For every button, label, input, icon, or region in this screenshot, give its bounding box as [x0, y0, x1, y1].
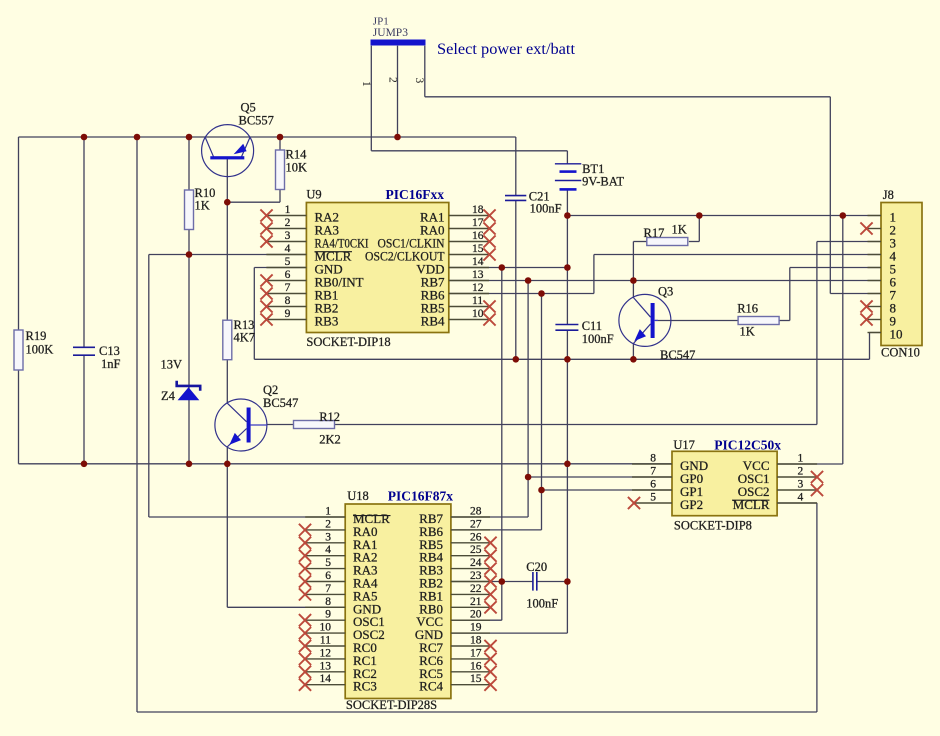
svg-text:PIC12C50x: PIC12C50x	[714, 438, 781, 453]
label R12	[319, 410, 340, 424]
wire VDD top rail	[19, 137, 516, 195]
U18 pin 23 RB2	[419, 570, 496, 591]
wire Q2 emitter to rail	[226, 447, 228, 464]
svg-text:4: 4	[285, 243, 291, 255]
svg-text:1nF: 1nF	[101, 357, 121, 371]
svg-text:R14: R14	[286, 148, 308, 162]
U18 pin 22 RB1	[419, 583, 496, 604]
U9 pin 7 RB1	[260, 282, 338, 303]
U18 pin 24 RB3	[419, 557, 496, 578]
svg-text:10: 10	[890, 327, 903, 342]
battery BT1	[555, 164, 581, 191]
svg-text:3: 3	[798, 479, 804, 491]
svg-text:U18: U18	[347, 489, 369, 503]
svg-text:13V: 13V	[161, 358, 183, 372]
svg-text:19: 19	[470, 622, 482, 634]
U17 pin 4 MCLR	[732, 492, 817, 513]
U9 pin 13 RB7	[421, 269, 489, 290]
svg-text:CON10: CON10	[881, 346, 920, 360]
svg-text:Q5: Q5	[241, 101, 256, 115]
label JP1	[373, 16, 389, 28]
svg-text:4: 4	[798, 492, 804, 504]
JP1 pin number 2	[387, 77, 399, 83]
svg-text:BC557: BC557	[239, 114, 274, 128]
wire C13 branch vertical	[83, 137, 85, 464]
junction dot R10/MCLR	[186, 251, 193, 258]
wire JP1 pin 2 to VDD rail	[397, 46, 399, 137]
wire C20 row RB2	[451, 581, 568, 583]
svg-text:1: 1	[285, 204, 291, 216]
label JUMP3	[373, 27, 408, 39]
svg-text:7: 7	[285, 282, 291, 294]
svg-text:SOCKET-DIP28S: SOCKET-DIP28S	[346, 698, 437, 712]
J8 pin 2	[860, 222, 896, 237]
junction dot GP1 row	[538, 487, 545, 494]
U18 pin 17 RC6	[419, 647, 496, 668]
U9 pin 12 RB6	[421, 282, 489, 303]
svg-text:18: 18	[472, 204, 484, 216]
wire Z4 branch vertical	[188, 255, 190, 464]
junction dots VDD row	[499, 264, 571, 271]
J8 pin 6	[868, 275, 897, 290]
wire long vertical top-to-bottom rail	[136, 137, 138, 712]
svg-text:10: 10	[472, 308, 484, 320]
U17 pin 3 OSC2	[738, 479, 823, 500]
resistor R14	[276, 150, 285, 190]
wire MCLR drop to U18 pin 1	[149, 255, 345, 518]
U18 pin 19 GND	[415, 622, 490, 643]
resistor R16	[738, 317, 779, 325]
U17 pin 1 VCC	[743, 453, 817, 474]
label R14	[286, 148, 308, 162]
U9 pin 8 RB2	[260, 295, 338, 316]
junction dots +V line	[564, 212, 846, 219]
resistor R17	[647, 238, 688, 246]
IC U9 PIC16Fxx socket DIP18 body	[306, 203, 448, 333]
label C13	[99, 344, 120, 358]
wire VDD vertical to U18 pin 20 VCC	[451, 268, 502, 621]
junction dots top rail	[81, 134, 401, 141]
label Z4	[161, 389, 176, 403]
U18 pin 1 MCLR	[305, 506, 390, 527]
svg-text:C13: C13	[99, 344, 120, 358]
svg-text:SOCKET-DIP18: SOCKET-DIP18	[306, 335, 390, 349]
svg-text:Z4: Z4	[161, 389, 176, 403]
svg-text:22: 22	[470, 583, 482, 595]
wire U9 GND pin 5 to ground rail	[254, 268, 306, 360]
svg-text:28: 28	[470, 506, 482, 518]
junction dots RB7 row	[525, 277, 637, 284]
svg-text:100nF: 100nF	[530, 202, 562, 216]
label R10	[195, 186, 216, 200]
svg-text:U9: U9	[306, 188, 321, 202]
svg-text:25: 25	[470, 544, 482, 556]
resistor R13	[223, 320, 232, 360]
U18 pin 28 RB7	[419, 506, 490, 527]
U18 pin 7 RA5	[299, 583, 378, 604]
jumper JP1 bar	[371, 40, 426, 46]
U18 pin 27 RB6	[419, 518, 490, 539]
svg-text:BC547: BC547	[660, 348, 695, 362]
resistor R12	[294, 421, 335, 429]
svg-text:6: 6	[325, 570, 331, 582]
junction dot R14/Q5 collector	[224, 199, 231, 206]
U17 pin 8 GND	[632, 453, 708, 474]
label 1nF	[101, 357, 121, 371]
svg-text:5: 5	[650, 492, 656, 504]
U9 pin 15 OSC2/CLKOUT	[365, 243, 496, 264]
svg-text:RC3: RC3	[353, 679, 377, 694]
JP1 pin number 1	[360, 81, 372, 87]
zener diode Z4	[177, 381, 201, 400]
svg-text:1K: 1K	[672, 223, 687, 237]
U18 pin 4 RA2	[299, 544, 378, 565]
label Q5	[241, 101, 256, 115]
svg-text:1: 1	[360, 81, 372, 87]
wire U9 VDD row	[449, 267, 568, 269]
svg-text:6: 6	[650, 479, 656, 491]
label 10K	[286, 161, 308, 175]
U9 pin 1 RA2	[260, 204, 339, 225]
svg-text:RB3: RB3	[315, 314, 339, 329]
label 100nF C20	[526, 597, 558, 611]
U9 pin 6 RB0/INT	[260, 269, 363, 290]
label U17	[673, 438, 695, 452]
J8 pin 8	[860, 300, 896, 315]
svg-text:MCLR: MCLR	[733, 497, 770, 512]
label 13V	[161, 358, 183, 372]
svg-text:2: 2	[285, 217, 291, 229]
svg-text:2K2: 2K2	[319, 433, 341, 447]
svg-text:11: 11	[320, 635, 331, 647]
U18 pin 3 RA1	[299, 531, 378, 552]
label 1K R16	[740, 325, 755, 339]
U18 pin 13 RC2	[299, 660, 377, 681]
U9 pin 17 RA0	[420, 217, 496, 238]
wire Q5 collector vertical	[226, 159, 228, 404]
svg-text:100nF: 100nF	[582, 332, 614, 346]
label SOCKET-DIP8	[674, 519, 752, 533]
svg-text:R12: R12	[319, 410, 340, 424]
U18 pin 20 VCC	[416, 609, 490, 630]
wire JP1 pin 3 across to J8 pin 7	[425, 46, 881, 294]
label R17	[644, 226, 665, 240]
transistor Q5 BC557	[202, 125, 254, 177]
svg-text:8: 8	[325, 596, 331, 608]
svg-text:PIC16F87x: PIC16F87x	[388, 489, 453, 504]
wire battery/C11 vertical down to U18 pin 19 GND	[451, 216, 568, 634]
label BC547 Q2	[263, 396, 298, 410]
U18 pin 16 RC5	[419, 660, 496, 681]
svg-text:2: 2	[798, 466, 804, 478]
svg-text:7: 7	[650, 466, 656, 478]
J8 pin 5	[868, 262, 897, 277]
svg-text:Select power ext/batt: Select power ext/batt	[437, 41, 576, 58]
U18 pin 11 RC0	[299, 635, 377, 656]
J8 pin 1	[868, 210, 897, 225]
svg-text:R17: R17	[644, 226, 665, 240]
wire RB7 vertical to U17 GP0 and U18 pin 28	[451, 281, 672, 518]
J8 pin 4	[868, 249, 897, 264]
wire battery to +V node	[566, 189, 568, 215]
svg-text:10K: 10K	[286, 161, 308, 175]
svg-text:27: 27	[470, 518, 482, 530]
wire bottom rail	[137, 711, 817, 713]
svg-text:20: 20	[470, 609, 482, 621]
svg-text:1: 1	[798, 453, 804, 465]
wire R10 branch vertical	[188, 137, 190, 255]
IC U17 PIC12C50x socket DIP8 body	[672, 451, 777, 515]
connector J8 CON10 body	[881, 203, 922, 346]
svg-text:17: 17	[472, 217, 484, 229]
svg-text:GP2: GP2	[680, 497, 703, 512]
svg-text:100K: 100K	[26, 343, 54, 357]
label C20	[526, 560, 547, 574]
label PIC12C50x	[714, 438, 781, 453]
label BC557	[239, 114, 274, 128]
U9 pin 5 GND	[266, 256, 342, 277]
svg-text:3: 3	[413, 78, 425, 84]
J8 pin 7	[868, 288, 897, 303]
U17 pin 7 GP0	[632, 466, 703, 487]
label Q2	[263, 383, 278, 397]
label CON10	[881, 346, 920, 360]
svg-text:8: 8	[285, 295, 291, 307]
wire +V down to U17 VCC pin 1	[777, 216, 843, 465]
svg-text:24: 24	[470, 557, 482, 569]
wire Q2 base R12 line to J8 pin 3	[267, 242, 881, 425]
svg-text:R19: R19	[26, 329, 47, 343]
svg-text:BC547: BC547	[263, 396, 298, 410]
svg-text:J8: J8	[883, 188, 894, 202]
wire left branch vertical (R19 leg)	[18, 137, 20, 464]
U9 pin 2 RA3	[260, 217, 339, 238]
U18 pin 15 RC4	[419, 673, 496, 694]
label SOCKET-DIP28S	[346, 698, 437, 712]
label 1K R10	[195, 199, 210, 213]
wire C21 branch vertical	[515, 201, 517, 360]
svg-text:5: 5	[285, 256, 291, 268]
U18 pin 21 RB0	[419, 596, 496, 617]
U9 pin 16 OSC1/CLKIN	[378, 230, 496, 251]
U18 pin 10 OSC2	[299, 622, 385, 643]
J8 pin 10	[868, 327, 903, 342]
svg-text:9V-BAT: 9V-BAT	[582, 175, 624, 189]
U18 pin 14 RC3	[299, 673, 377, 694]
wire R17 right leg to +V	[689, 216, 699, 242]
U9 pin 4 MCLR	[266, 243, 352, 264]
U18 pin 18 RC7	[419, 635, 496, 656]
svg-text:7: 7	[325, 583, 331, 595]
svg-text:18: 18	[470, 635, 482, 647]
svg-text:5: 5	[325, 557, 331, 569]
svg-text:RC4: RC4	[419, 679, 443, 694]
svg-text:10: 10	[320, 622, 332, 634]
U17 pin 2 OSC1	[738, 466, 823, 487]
svg-text:16: 16	[470, 660, 482, 672]
label SOCKET-DIP18	[306, 335, 390, 349]
svg-text:2: 2	[325, 518, 331, 530]
svg-text:14: 14	[472, 256, 484, 268]
capacitor C11	[555, 325, 578, 331]
svg-text:RB4: RB4	[421, 314, 445, 329]
svg-text:Q3: Q3	[658, 285, 673, 299]
junction dots lower rail	[81, 461, 571, 468]
label 100nF C21	[530, 202, 562, 216]
svg-text:R16: R16	[737, 302, 758, 316]
svg-text:8: 8	[650, 453, 656, 465]
U17 pin 5 GP2	[628, 492, 703, 513]
label Q3	[658, 285, 673, 299]
U9 pin 18 RA1	[420, 204, 496, 225]
label BT1	[582, 162, 604, 176]
U18 pin 9 OSC1	[299, 609, 385, 630]
svg-text:17: 17	[470, 647, 482, 659]
junction dots C20 row	[499, 578, 571, 585]
svg-text:1: 1	[325, 506, 331, 518]
svg-text:JP1: JP1	[373, 16, 389, 28]
label R16	[737, 302, 758, 316]
U9 pin 9 RB3	[260, 308, 338, 329]
wire +V line to J8 pin 1	[567, 215, 881, 217]
wire JP1 pin 1 to battery top	[371, 46, 567, 164]
svg-text:14: 14	[320, 673, 332, 685]
capacitor C21	[505, 196, 526, 201]
U9 pin 10 RB4	[421, 308, 496, 329]
transistor Q2 BC547	[215, 399, 267, 451]
svg-text:26: 26	[470, 531, 482, 543]
wire RB6 vertical to U17 GP1 and U18 pin 27	[451, 294, 672, 530]
svg-text:4: 4	[325, 544, 331, 556]
label 4K7	[234, 331, 256, 345]
svg-text:C20: C20	[526, 560, 547, 574]
svg-text:U17: U17	[673, 438, 695, 452]
svg-text:13: 13	[472, 269, 484, 281]
wire ground rail lower	[19, 463, 673, 465]
svg-text:SOCKET-DIP8: SOCKET-DIP8	[674, 519, 752, 533]
svg-text:9: 9	[285, 308, 291, 320]
svg-text:12: 12	[320, 647, 332, 659]
label PIC16F87x	[388, 489, 453, 504]
svg-text:PIC16Fxx: PIC16Fxx	[386, 187, 445, 202]
svg-text:1K: 1K	[740, 325, 755, 339]
resistor R19	[14, 330, 23, 370]
U9 pin 14 VDD	[416, 256, 489, 277]
U9 pin 3 RA4/T0CKI	[260, 230, 368, 251]
svg-text:Q2: Q2	[263, 383, 278, 397]
U18 pin 25 RB4	[419, 544, 496, 565]
IC U18 PIC16F87x socket DIP28S body	[345, 504, 451, 699]
U18 pin 6 RA4	[299, 570, 378, 591]
wire Q3 base R16 line to J8 pin 5	[655, 268, 881, 321]
wire U9 RB6 row to J8 pin 4	[449, 255, 881, 294]
label 100K	[26, 343, 54, 357]
U9 pin 11 RB5	[421, 295, 496, 316]
label 2K2	[319, 433, 341, 447]
label J8	[883, 188, 894, 202]
label U18	[347, 489, 369, 503]
wire Q3 emitter to ground rail	[632, 344, 634, 360]
label 100nF C11	[582, 332, 614, 346]
svg-text:15: 15	[470, 673, 482, 685]
label R13	[234, 318, 255, 332]
junction dots ground rail middle	[513, 356, 637, 363]
label R19	[26, 329, 47, 343]
U17 pin 6 GP1	[632, 479, 703, 500]
wire ground rail tap to U18 pin 8 GND	[227, 464, 345, 608]
U18 pin 2 RA0	[299, 518, 378, 539]
wire U17 MCLR pin 4 to bottom rail	[777, 503, 817, 712]
svg-text:1K: 1K	[195, 199, 210, 213]
junction dot RB6 row	[538, 290, 545, 297]
U18 pin 26 RB5	[419, 531, 496, 552]
svg-text:3: 3	[325, 531, 331, 543]
svg-text:2: 2	[387, 77, 399, 83]
label BC547 Q3	[660, 348, 695, 362]
svg-text:9: 9	[325, 609, 331, 621]
svg-text:6: 6	[285, 269, 291, 281]
label Select power ext/batt	[437, 41, 576, 58]
U18 pin 5 RA3	[299, 557, 378, 578]
transistor Q3 BC547	[619, 294, 671, 346]
svg-text:12: 12	[472, 282, 484, 294]
svg-text:4K7: 4K7	[234, 331, 256, 345]
wire MCLR horizontal to U9 pin 4	[149, 254, 307, 256]
svg-text:23: 23	[470, 570, 482, 582]
label C11	[582, 319, 602, 333]
capacitor C20	[533, 572, 537, 591]
wire ground rail middle	[254, 333, 881, 360]
svg-text:JUMP3: JUMP3	[373, 27, 408, 39]
J8 pin 9	[860, 313, 896, 328]
svg-text:15: 15	[472, 243, 484, 255]
svg-text:11: 11	[472, 295, 483, 307]
label PIC16Fxx	[386, 187, 445, 202]
JP1 pin number 3	[413, 78, 425, 84]
label U9	[306, 188, 321, 202]
svg-text:C11: C11	[582, 319, 602, 333]
wire U9 RB7 row to J8 pin 6	[449, 280, 881, 282]
wire R17 left leg to RB7 and Q3	[633, 242, 646, 298]
junction dot GP0 row	[525, 474, 532, 481]
label C21	[529, 190, 550, 204]
U18 pin 8 GND	[305, 596, 381, 617]
svg-text:13: 13	[320, 660, 332, 672]
resistor R10	[185, 190, 194, 230]
svg-text:100nF: 100nF	[526, 597, 558, 611]
J8 pin 3	[868, 236, 897, 251]
U18 pin 12 RC1	[299, 647, 377, 668]
label 1K R17	[672, 223, 687, 237]
svg-text:21: 21	[470, 596, 482, 608]
capacitor C13	[73, 347, 95, 355]
label 9V-BAT	[582, 175, 624, 189]
svg-text:16: 16	[472, 230, 484, 242]
wire R14 branch	[227, 137, 280, 202]
svg-text:3: 3	[285, 230, 291, 242]
